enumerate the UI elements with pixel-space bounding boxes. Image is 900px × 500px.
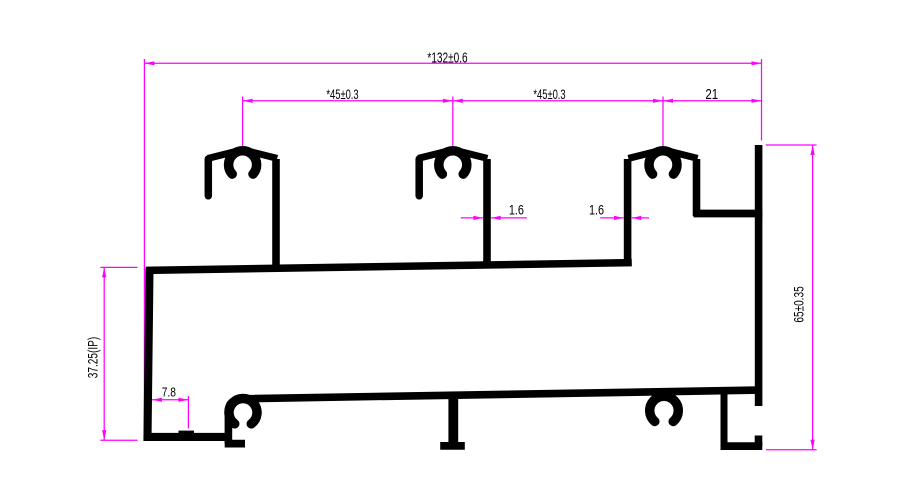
svg-text:65±0.35: 65±0.35 bbox=[791, 286, 807, 323]
svg-text:1.6: 1.6 bbox=[509, 202, 524, 217]
svg-text:*45±0.3: *45±0.3 bbox=[326, 86, 359, 102]
svg-text:1.6: 1.6 bbox=[589, 202, 604, 217]
svg-text:21: 21 bbox=[705, 86, 718, 103]
svg-text:*132±0.6: *132±0.6 bbox=[427, 49, 467, 65]
svg-text:37.25(IP): 37.25(IP) bbox=[85, 337, 101, 378]
svg-text:*45±0.3: *45±0.3 bbox=[533, 86, 566, 102]
svg-text:7.8: 7.8 bbox=[162, 386, 176, 399]
